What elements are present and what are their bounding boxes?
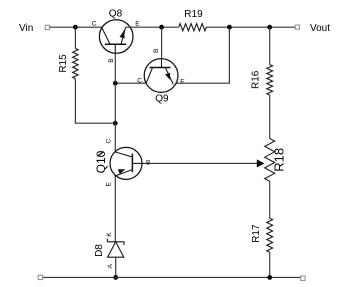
wire R18 to R17 [269, 181, 271, 218]
wire Q9 emitter branch [176, 27, 229, 83]
label Q10 [94, 150, 108, 173]
pin label C of Q10 [106, 139, 113, 144]
wire Q9 collector to spine [115, 82, 146, 84]
label R15 [58, 54, 69, 73]
pin label E of Q8 [135, 21, 140, 28]
wire Vin terminal to Q8 collector [50, 26, 103, 28]
label R19 [184, 9, 203, 20]
resistor R17 [267, 218, 273, 252]
svg-text:C: C [106, 139, 113, 144]
pin label B of Q8 [108, 58, 115, 62]
label Q9 [155, 94, 169, 105]
wire R15 bottom lead to spine [75, 79, 115, 124]
junction Q9 collector / spine [113, 81, 118, 86]
junction D8 / bottom rail [113, 275, 118, 280]
wire R15 junction to Q10 collector [114, 123, 116, 151]
svg-text:B: B [108, 58, 115, 62]
resistor R19 [179, 24, 207, 31]
wire Q8 emitter to R19 [126, 26, 179, 28]
pin label E of Q10 [106, 181, 113, 186]
resistor R16 [267, 65, 273, 95]
terminal Vout [295, 25, 299, 29]
wire Vout junction to R16 [269, 27, 271, 64]
junction R17 / bottom rail [267, 275, 272, 280]
wire Q10 emitter to D8 cathode [114, 176, 116, 242]
potentiometer R18 [265, 138, 275, 181]
resistor R15 [73, 48, 78, 78]
pin label A of D8 [107, 263, 114, 268]
pin label K of D8 [106, 232, 113, 237]
transistor Q9 [144, 58, 178, 92]
pin label E of Q9 [180, 79, 185, 86]
svg-text:R17: R17 [251, 224, 262, 243]
junction R15 / base spine [113, 121, 118, 126]
terminal bottom right [301, 276, 305, 280]
svg-text:R19: R19 [184, 9, 203, 20]
junction Q9 base tap [159, 25, 164, 30]
wire Q8 base down to Q9 C junction [114, 54, 116, 83]
transistor Q8 [99, 20, 133, 54]
wire R19 to Vout terminal [206, 26, 295, 28]
svg-text:D8: D8 [94, 244, 105, 257]
svg-text:K: K [106, 232, 113, 237]
svg-text:E: E [106, 181, 113, 186]
label R18 [271, 148, 286, 172]
pin label B of Q10 [146, 160, 150, 167]
svg-text:R18: R18 [271, 148, 286, 172]
label R17 [251, 224, 262, 243]
wire D8 anode to bottom rail [115, 257, 117, 277]
junction R19 / Q9 emitter branch [227, 25, 232, 30]
wire R15 top lead [74, 27, 76, 48]
label D8 [94, 244, 105, 257]
label Q8 [109, 8, 123, 19]
pin label C of Q9 [137, 78, 142, 85]
wire bottom rail [43, 276, 301, 278]
wire R17 to bottom rail [269, 252, 271, 277]
terminal bottom left [38, 275, 42, 279]
pin label B of Q9 [153, 49, 160, 53]
node Vout [310, 23, 330, 34]
svg-text:Q9: Q9 [155, 94, 169, 105]
svg-text:E: E [180, 79, 185, 86]
svg-text:C: C [92, 20, 97, 27]
terminal Vin [45, 25, 49, 29]
label R16 [251, 70, 262, 89]
svg-text:R16: R16 [251, 70, 262, 89]
wire Q9 base [161, 27, 163, 58]
svg-text:Vin: Vin [19, 23, 33, 34]
svg-text:Vout: Vout [310, 23, 330, 34]
wire R16 to R18 [269, 95, 271, 138]
node Vin [19, 23, 33, 34]
junction Vout / R16 [267, 25, 272, 30]
svg-text:R15: R15 [58, 54, 69, 73]
svg-text:A: A [107, 263, 114, 268]
pin label C of Q8 [92, 20, 97, 27]
wire Q10 base to R18 wiper [142, 162, 258, 164]
transistor Q10 [110, 147, 142, 179]
potentiometer R18 wiper arrow [257, 159, 265, 167]
wire Q9 C junction to R15 junction [114, 83, 116, 123]
zener diode D8 [107, 239, 124, 258]
junction Vin / R15 [73, 25, 78, 30]
svg-text:Q8: Q8 [109, 8, 123, 19]
svg-text:B: B [153, 49, 160, 53]
